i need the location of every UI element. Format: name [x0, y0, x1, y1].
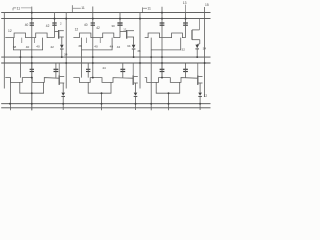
svg-text:40: 40 [25, 23, 29, 27]
svg-text:34: 34 [64, 53, 68, 57]
svg-text:40: 40 [110, 44, 114, 48]
svg-text:11: 11 [17, 6, 21, 10]
svg-text:42: 42 [96, 26, 100, 30]
svg-text:34: 34 [203, 47, 207, 51]
svg-text:13: 13 [183, 1, 187, 5]
svg-text:11: 11 [147, 6, 151, 10]
svg-text:12: 12 [8, 29, 12, 33]
svg-text:30: 30 [111, 24, 115, 28]
svg-text:12: 12 [123, 28, 127, 32]
svg-text:36: 36 [137, 49, 141, 53]
svg-text:40: 40 [26, 45, 30, 49]
svg-text:40: 40 [94, 44, 98, 48]
svg-text:42: 42 [50, 45, 54, 49]
svg-text:40: 40 [36, 44, 40, 48]
svg-text:42: 42 [46, 24, 50, 28]
svg-text:38: 38 [78, 44, 82, 48]
svg-text:15: 15 [205, 3, 209, 7]
svg-text:40: 40 [84, 23, 88, 27]
svg-text:11: 11 [81, 6, 85, 10]
svg-text:32: 32 [182, 48, 186, 52]
svg-text:44: 44 [102, 66, 106, 70]
svg-text:12: 12 [204, 94, 208, 98]
svg-text:12: 12 [75, 28, 79, 32]
svg-text:34: 34 [127, 44, 131, 48]
svg-text:38: 38 [13, 45, 17, 49]
svg-text:42: 42 [117, 45, 121, 49]
